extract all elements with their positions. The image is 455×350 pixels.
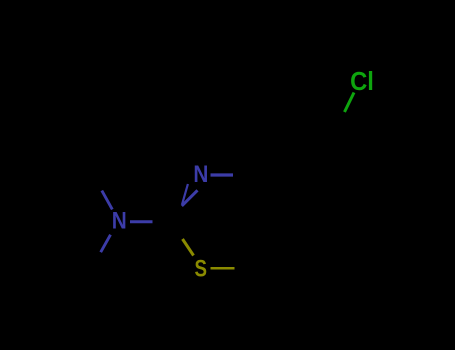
bond N2 to phenyl (half-bond, N-colored) — [211, 173, 234, 176]
bond N1 to central C (half-bond, N-colored) — [130, 220, 153, 223]
bond Cl to ring carbon (half-bond, Cl-colored) — [345, 93, 355, 113]
svg-text:Cl: Cl — [350, 66, 374, 96]
bond N1 lower ethyl (half-bond, N-colored) — [101, 235, 111, 253]
svg-text:S: S — [194, 256, 207, 283]
double bond C=N2 line b (thick) — [182, 190, 198, 206]
bond S to methyl (half-bond, S-colored) — [211, 267, 235, 270]
double bond C=N2 line a (thin, near-vertical) — [182, 184, 188, 204]
svg-text:N: N — [112, 208, 127, 235]
bond central C to S (half-bond, S-colored) — [183, 239, 194, 256]
bond N1 upper ethyl (half-bond, N-colored) — [102, 191, 113, 210]
svg-text:N: N — [193, 161, 208, 188]
